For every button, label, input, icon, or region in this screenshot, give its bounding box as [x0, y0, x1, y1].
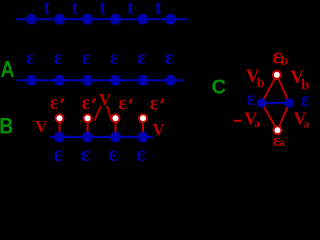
- svg-text:ε: ε: [81, 141, 90, 163]
- site dot 5 chain A: [138, 75, 149, 86]
- svg-text:a: a: [254, 118, 260, 130]
- svg-text:ε: ε: [108, 141, 117, 163]
- bond V 4 chain B: [142, 118, 144, 137]
- svg-text:V: V: [35, 117, 48, 136]
- site dot right C: [284, 98, 294, 108]
- site dot 1 top chain: [26, 14, 37, 25]
- adatom ring 4 chain B: [139, 114, 147, 122]
- diamond edge Vb upper-right: [277, 75, 289, 103]
- leader curve left from V top: [95, 106, 102, 121]
- diamond edge -Va lower-left: [262, 103, 278, 130]
- svg-text:ε: ε: [82, 47, 91, 69]
- bond V 3 chain B: [115, 118, 117, 137]
- site dot 2 chain A: [54, 75, 65, 86]
- site dot 3 chain B: [110, 132, 121, 143]
- site dot left C: [257, 98, 267, 108]
- svg-text:A: A: [1, 58, 15, 83]
- site dot 3 chain A: [82, 75, 93, 86]
- site dot 5 top chain: [138, 14, 149, 25]
- svg-text:t: t: [127, 0, 134, 19]
- svg-text:ε: ε: [137, 47, 146, 69]
- adatom ring 1 chain B: [56, 114, 64, 122]
- site dot 2 chain B: [82, 132, 93, 143]
- diamond edge Va lower-right: [278, 103, 290, 130]
- svg-text:a: a: [304, 119, 310, 131]
- adatom ring bottom C: [274, 126, 282, 134]
- svg-text:ε: ε: [54, 141, 63, 163]
- svg-text:B: B: [0, 115, 13, 139]
- svg-text:ε: ε: [118, 93, 127, 115]
- svg-text:t: t: [71, 0, 78, 19]
- label minus sign of -Va lower-left C: [234, 120, 242, 122]
- svg-text:ε: ε: [301, 89, 310, 111]
- svg-text:t: t: [43, 0, 50, 19]
- svg-text:b: b: [257, 76, 265, 91]
- site dot 1 chain A: [26, 75, 37, 86]
- svg-text:t: t: [99, 0, 106, 19]
- svg-text:ε: ε: [54, 47, 63, 69]
- bond V 2 chain B: [87, 118, 89, 137]
- adatom ring top C: [273, 71, 281, 79]
- wire chain B: [50, 136, 153, 138]
- svg-text:ε: ε: [136, 141, 145, 163]
- diamond edge Vb upper-left: [262, 75, 277, 103]
- site dot 2 top chain: [54, 14, 65, 25]
- svg-text:a: a: [279, 137, 285, 149]
- site dot 4 chain A: [110, 75, 121, 86]
- svg-text:ε: ε: [165, 47, 174, 69]
- site dot 4 top chain: [110, 14, 121, 25]
- svg-text:ε: ε: [82, 92, 91, 114]
- leader curve right from V top: [107, 106, 112, 121]
- svg-text:ε: ε: [110, 47, 119, 69]
- wire top chain: [16, 18, 187, 20]
- site dot 4 chain B: [138, 132, 149, 143]
- wire chain A: [17, 79, 184, 81]
- site dot 6 top chain: [165, 14, 176, 25]
- svg-text:t: t: [155, 0, 162, 19]
- svg-text:ε: ε: [50, 92, 59, 114]
- svg-text:ε: ε: [247, 88, 256, 110]
- svg-text:ε: ε: [150, 93, 159, 115]
- adatom ring 3 chain B: [112, 114, 120, 122]
- svg-text:V: V: [152, 120, 165, 139]
- adatom ring 2 chain B: [84, 114, 92, 122]
- site dot 3 top chain: [82, 14, 93, 25]
- svg-text:ε: ε: [26, 47, 35, 69]
- wire between dots C: [262, 102, 290, 104]
- site dot 1 chain B: [54, 132, 65, 143]
- site dot 6 chain A: [165, 75, 176, 86]
- svg-text:C: C: [212, 77, 227, 99]
- bond V 1 chain B: [59, 118, 61, 137]
- svg-text:b: b: [280, 54, 288, 69]
